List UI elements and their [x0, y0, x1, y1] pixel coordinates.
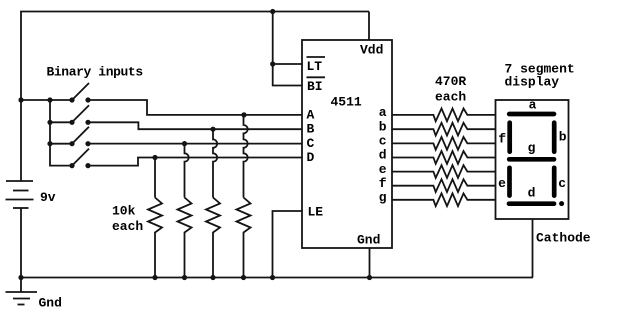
svg-text:f: f — [379, 176, 387, 191]
svg-text:Gnd: Gnd — [357, 232, 380, 247]
svg-text:Binary inputs: Binary inputs — [47, 64, 144, 79]
svg-text:B: B — [307, 122, 315, 137]
svg-text:c: c — [558, 176, 566, 191]
svg-text:BI: BI — [307, 79, 323, 94]
svg-text:e: e — [498, 176, 506, 191]
svg-text:10k: 10k — [112, 203, 136, 218]
svg-text:4511: 4511 — [331, 95, 362, 110]
svg-text:C: C — [307, 136, 315, 151]
svg-text:e: e — [379, 162, 387, 177]
svg-text:LT: LT — [307, 59, 323, 74]
svg-text:Vdd: Vdd — [360, 43, 383, 58]
svg-text:f: f — [498, 131, 506, 146]
svg-text:d: d — [528, 186, 536, 201]
svg-text:each: each — [112, 219, 143, 234]
svg-text:d: d — [379, 148, 387, 163]
svg-text:b: b — [379, 119, 387, 134]
svg-text:c: c — [379, 134, 387, 149]
svg-text:each: each — [435, 89, 466, 104]
svg-text:g: g — [528, 140, 536, 155]
svg-text:b: b — [559, 129, 567, 144]
svg-text:a: a — [529, 97, 537, 112]
svg-text:display: display — [505, 74, 560, 89]
svg-text:g: g — [379, 190, 387, 205]
svg-text:9v: 9v — [40, 190, 56, 205]
svg-text:A: A — [307, 108, 315, 123]
svg-text:LE: LE — [308, 205, 324, 220]
svg-text:D: D — [307, 150, 315, 165]
svg-text:a: a — [379, 105, 387, 120]
svg-text:Cathode: Cathode — [536, 230, 591, 245]
svg-text:Gnd: Gnd — [39, 296, 62, 311]
svg-text:470R: 470R — [435, 74, 466, 89]
